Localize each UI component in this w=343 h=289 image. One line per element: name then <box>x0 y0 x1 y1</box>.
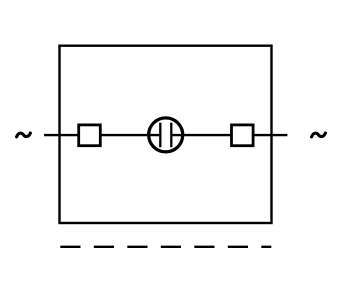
enclosure box <box>60 46 272 223</box>
fuse F1 (left box element) <box>79 125 101 146</box>
wire <box>171 134 287 136</box>
fuse F3 (right box element) <box>232 125 254 146</box>
node L (left AC terminal) ~ <box>17 133 31 137</box>
ground / boundary dashed line <box>60 246 271 248</box>
surge arrester F2 circle <box>149 118 183 152</box>
node R (right AC terminal) ~ <box>312 133 326 137</box>
surge arrester F2 electrode right <box>170 123 172 148</box>
wire <box>44 134 160 136</box>
surge arrester F2 electrode left <box>159 123 161 148</box>
